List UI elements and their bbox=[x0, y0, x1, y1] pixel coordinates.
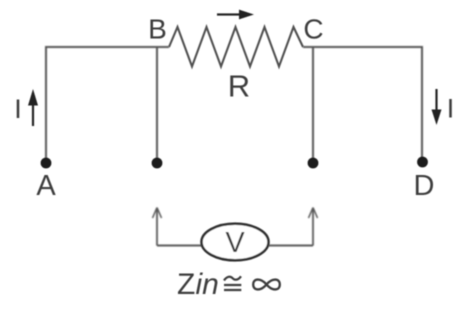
svg-text:I: I bbox=[14, 94, 22, 124]
svg-text:I: I bbox=[447, 94, 455, 124]
svg-text:B: B bbox=[148, 14, 167, 45]
svg-text:A: A bbox=[36, 170, 56, 202]
resistor R zigzag body bbox=[169, 27, 303, 67]
wire right vertical down to node D bbox=[421, 46, 423, 159]
svg-text:Z: Z bbox=[177, 268, 195, 301]
current arrow right (down) bbox=[435, 89, 437, 111]
current direction arrow above resistor bbox=[217, 13, 241, 15]
node A terminal dot bbox=[41, 158, 52, 169]
wire voltmeter right lead bbox=[269, 245, 314, 247]
svg-text:D: D bbox=[414, 170, 435, 202]
approximately-equal symbol bbox=[224, 276, 241, 280]
wire voltmeter left lead bbox=[157, 245, 202, 247]
wire from node C down to terminal bbox=[312, 47, 314, 160]
svg-text:V: V bbox=[225, 227, 245, 259]
wire left vertical down to node A bbox=[45, 46, 47, 160]
wire from node B down to terminal bbox=[156, 47, 158, 160]
current arrow left (up) bbox=[32, 104, 34, 126]
node B terminal dot bbox=[152, 158, 163, 169]
voltmeter sense arrow left (points up toward node B terminal) bbox=[156, 209, 158, 246]
voltmeter V body bbox=[202, 224, 269, 261]
svg-text:C: C bbox=[303, 14, 323, 45]
infinity symbol bbox=[253, 280, 280, 290]
svg-text:in: in bbox=[196, 268, 219, 301]
voltmeter sense arrow right (points up toward node C terminal) bbox=[312, 209, 314, 246]
svg-text:R: R bbox=[228, 69, 250, 104]
node D terminal dot bbox=[417, 157, 428, 168]
node C terminal dot bbox=[308, 158, 319, 169]
wire top-right horizontal from resistor to corner D-side bbox=[303, 46, 422, 48]
wire top-left horizontal from corner A-side to resistor bbox=[46, 46, 169, 48]
